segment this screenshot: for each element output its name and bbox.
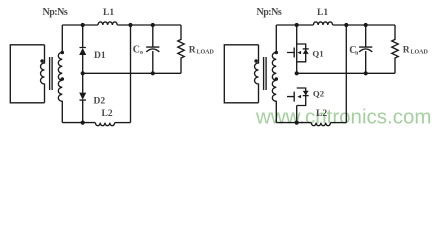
svg-text:Q1: Q1	[312, 49, 323, 59]
inductor L2	[95, 123, 114, 126]
input source loop	[10, 45, 44, 103]
mid rail wire	[83, 72, 181, 74]
Q1 body arrow	[297, 51, 301, 54]
Q1 gate	[287, 48, 294, 58]
node dot mid	[81, 71, 85, 75]
svg-text:C: C	[133, 45, 140, 56]
inductor L1 (right)	[313, 22, 332, 25]
node dot Q1 top	[295, 23, 299, 27]
Q2 body diode	[303, 95, 309, 97]
svg-text:LOAD: LOAD	[197, 49, 215, 55]
input source loop	[224, 45, 258, 103]
node dot bottom	[295, 121, 299, 125]
top rail wire	[62, 24, 98, 26]
svg-text:Np:Ns: Np:Ns	[43, 7, 68, 18]
node dot Co bottom	[151, 71, 155, 75]
mid rail wire	[297, 72, 395, 74]
svg-text:Np:Ns: Np:Ns	[257, 7, 282, 18]
svg-text:a: a	[355, 51, 358, 57]
svg-text:L1: L1	[317, 8, 328, 18]
secondary phasing dot mid	[61, 77, 65, 81]
svg-text:o: o	[140, 50, 143, 56]
primary phasing dot	[254, 59, 258, 63]
riser wire L2 to output	[130, 25, 132, 123]
top rail wire right of L1	[333, 24, 395, 26]
riser wire L2 to output (right)	[345, 25, 347, 123]
Q2 body arrow	[297, 95, 301, 98]
bottom rail wire left	[276, 122, 311, 124]
resistor RLOAD	[178, 25, 184, 73]
svg-text:L2: L2	[102, 109, 113, 119]
svg-text:L2: L2	[316, 109, 327, 119]
node dot riser top	[344, 23, 348, 27]
bottom rail wire right	[115, 122, 131, 124]
capacitor Co	[146, 25, 159, 73]
transformer T1 secondary winding	[58, 25, 62, 123]
mosfet Q2	[297, 88, 306, 106]
node dot riser top	[128, 23, 132, 27]
transformer T2 primary winding	[255, 45, 259, 103]
secondary phasing dot mid	[275, 77, 279, 81]
node dot Co top	[151, 23, 155, 27]
svg-text:LOAD: LOAD	[411, 49, 429, 55]
transformer core	[50, 57, 53, 90]
svg-text:www.cntronics.com: www.cntronics.com	[255, 106, 431, 129]
svg-text:R: R	[189, 46, 196, 56]
secondary phasing dot top	[61, 51, 65, 55]
bottom rail wire left	[62, 122, 95, 124]
node dot Ca top	[364, 23, 368, 27]
node dot D1 top	[81, 23, 85, 27]
bottom rail wire right	[331, 122, 347, 124]
node dot mid	[295, 71, 299, 75]
resistor RLOAD (right)	[392, 25, 398, 73]
diode D2	[80, 73, 86, 122]
primary phasing dot	[40, 59, 44, 63]
svg-text:D2: D2	[94, 96, 106, 106]
secondary phasing dot top	[275, 51, 279, 55]
diode D1	[80, 25, 86, 73]
inductor L1	[98, 22, 117, 25]
node dot Ca bottom	[364, 71, 368, 75]
svg-text:R: R	[403, 46, 410, 56]
inductor L2 (right)	[311, 123, 330, 126]
svg-text:L1: L1	[103, 8, 114, 18]
Q2 gate	[287, 92, 294, 102]
svg-text:Q2: Q2	[313, 88, 325, 98]
transformer T1 primary winding	[41, 45, 45, 103]
Q1 body diode	[303, 48, 309, 50]
transformer T2 secondary winding	[272, 25, 276, 123]
top rail wire right of L1	[117, 24, 181, 26]
top rail wire	[276, 24, 313, 26]
node dot bottom	[81, 121, 85, 125]
svg-text:D1: D1	[94, 51, 106, 61]
mosfet Q1	[296, 25, 298, 73]
transformer core	[264, 57, 267, 90]
capacitor Ca	[359, 25, 372, 73]
